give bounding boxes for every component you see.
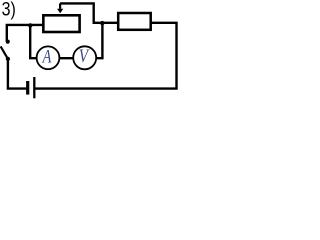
wire: ammeter to voltmeter <box>59 57 73 59</box>
svg-text:3): 3) <box>2 0 16 20</box>
wire: switch down to bottom-left corner then right to battery <box>8 59 27 89</box>
wire: junction down then right into ammeter <box>30 25 37 58</box>
ammeter U1 circle <box>37 46 60 69</box>
label 3) <box>2 0 16 20</box>
switch S1 bottom contact dot <box>6 57 10 61</box>
svg-text:A: A <box>42 46 52 67</box>
battery B1 long thin plate <box>33 77 35 98</box>
node junction dot on resistor feed wire <box>100 21 104 25</box>
rheostat R1 body <box>43 15 79 32</box>
wire: top bus from rheostat slider corner to resistor R2 left <box>60 3 118 22</box>
wire: top-left horizontal with corner down to switch <box>7 25 44 41</box>
voltmeter U2 circle <box>73 46 96 69</box>
switch S1 top contact dot <box>6 40 10 44</box>
battery B1 short thick plate <box>26 81 29 95</box>
wire: bottom horizontal, up right side, left to resistor R2 <box>34 23 177 89</box>
switch S1 blade (open) <box>1 46 8 59</box>
rheostat slider arrow shaft <box>59 3 61 8</box>
resistor R2 <box>118 13 151 30</box>
node junction dot on left wire <box>28 23 32 27</box>
wire: voltmeter right then up to junction on resistor feed <box>97 23 103 58</box>
rheostat slider arrowhead <box>57 9 63 14</box>
